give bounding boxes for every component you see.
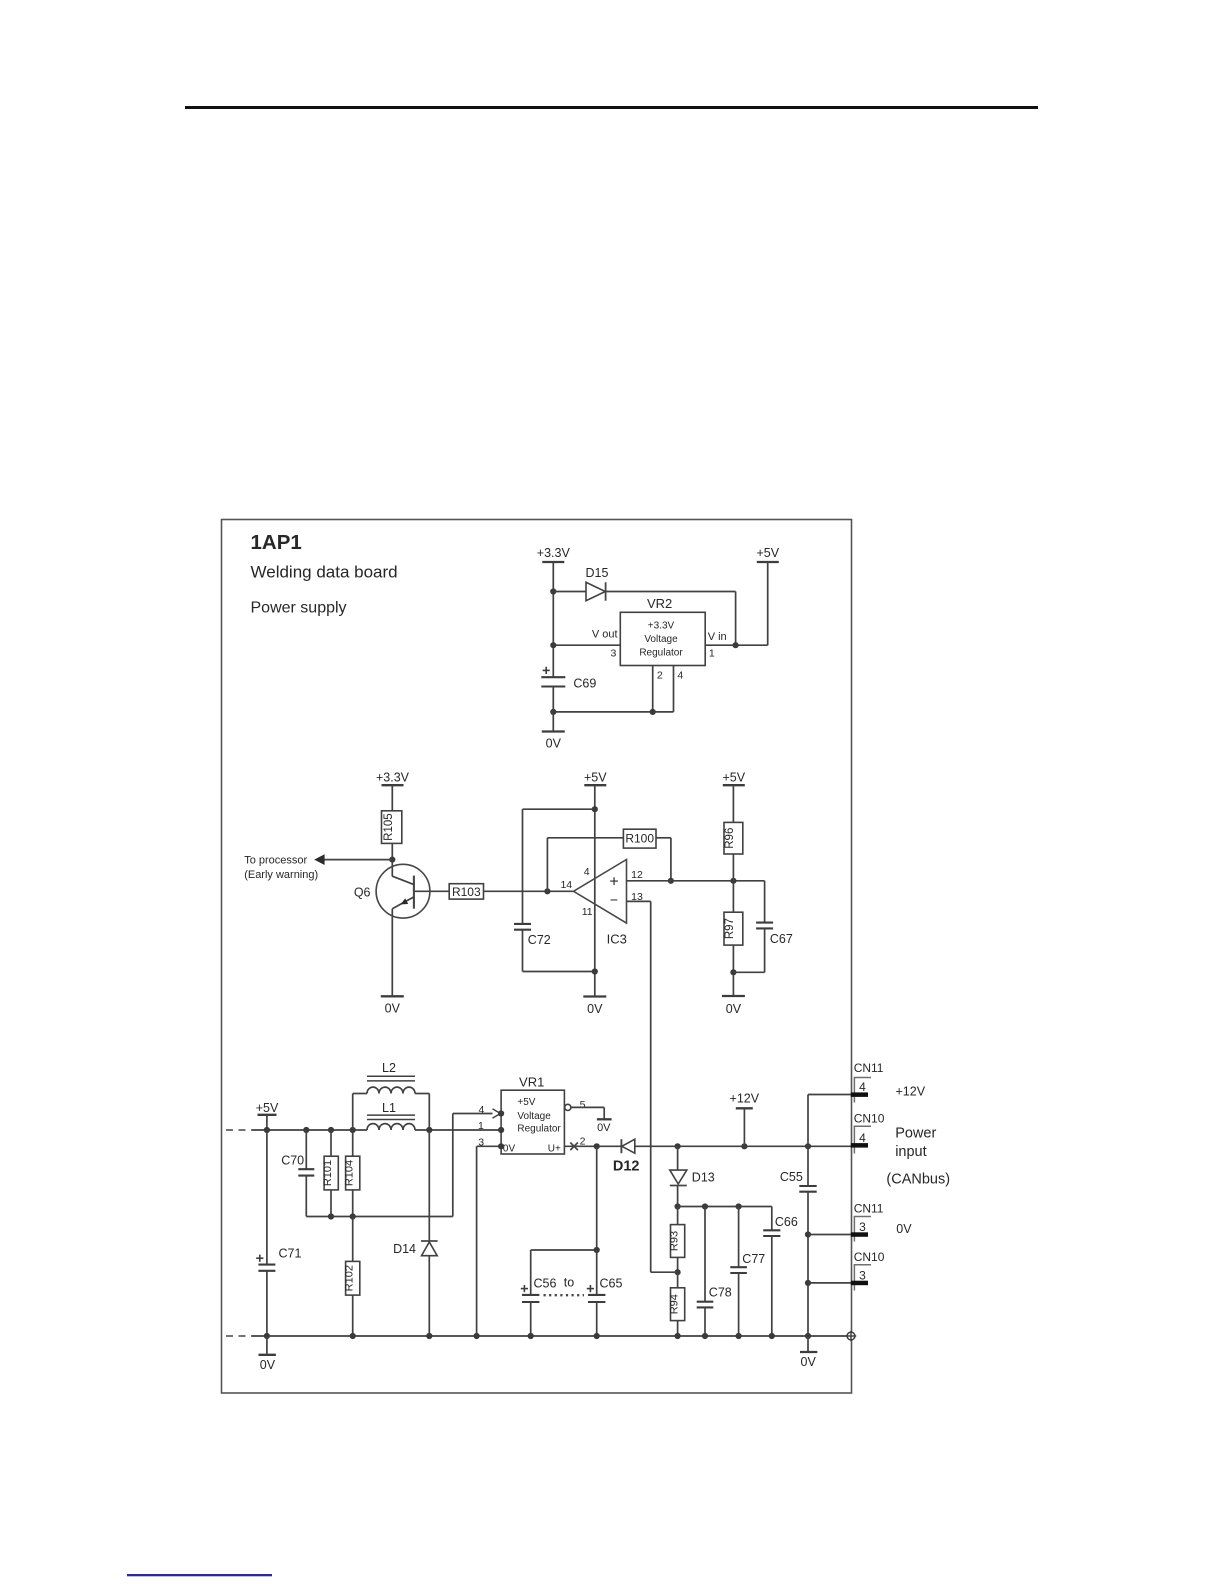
wire CN11 pin3 link [808,1234,851,1236]
arrow to processor [314,854,324,865]
svg-text:L2: L2 [382,1061,396,1075]
svg-text:D12: D12 [613,1159,640,1175]
svg-text:C66: C66 [775,1215,798,1229]
svg-text:3: 3 [610,648,616,660]
svg-text:Voltage: Voltage [644,634,678,645]
label to [564,1276,574,1290]
svg-text:1AP1: 1AP1 [251,531,302,554]
node junction 0V rail [594,1333,600,1339]
schematic frame [222,520,852,1394]
node junction CN11-3 tap [805,1231,811,1237]
svg-text:R102: R102 [344,1265,356,1291]
wire feedback bus [306,1216,453,1218]
capacitor C70 [281,1153,314,1175]
svg-text:4: 4 [859,1131,866,1145]
svg-text:C67: C67 [770,932,793,946]
diode D14 [393,1130,438,1336]
label Early warning [244,869,318,881]
svg-text:1: 1 [478,1120,484,1132]
capacitor C71 [256,1246,301,1271]
resistor R104 [344,1156,360,1190]
wire R105 to collector [391,843,393,876]
svg-text:Regulator: Regulator [639,648,683,659]
capacitor C65 [587,1250,623,1336]
svg-text:+5V: +5V [517,1097,535,1108]
ground 0V (under Q6) [381,996,404,1015]
node junction 0V rail [264,1333,270,1339]
svg-text:IC3: IC3 [607,931,627,946]
svg-text:input: input [895,1144,926,1160]
arrow into pin 4 [493,1109,501,1118]
capacitor C78 [697,1207,732,1337]
svg-text:R93: R93 [668,1231,680,1251]
svg-text:0V: 0V [597,1122,611,1134]
svg-text:+5V: +5V [757,546,780,560]
power rail +3.3V (top) [537,546,571,562]
node junction D13 tap [675,1143,681,1149]
wire VR1 pin2 output [564,1145,621,1147]
svg-text:R101: R101 [322,1160,334,1186]
diode D13 [670,1146,715,1206]
svg-text:+5V: +5V [584,771,607,785]
capacitor C69 [541,667,596,691]
resistor R102 [344,1217,360,1337]
node junction gnd left [550,709,556,715]
node junction 0V rail [769,1333,775,1339]
wire C69 bottom [552,687,554,732]
svg-text:VR1: VR1 [519,1074,544,1089]
wire feedback up [546,838,548,892]
pin 3 label VR1 [478,1137,484,1149]
label 0V (right) [896,1222,912,1236]
svg-text:0V: 0V [726,1002,742,1016]
ground 0V (top section) [542,732,565,751]
svg-text:0V: 0V [260,1358,276,1372]
wire +5V through IC3 [594,785,596,996]
subtitle Welding data board [251,563,398,582]
svg-text:R103: R103 [452,885,481,899]
label +12V (right) [896,1084,926,1098]
svg-text:Welding data board: Welding data board [251,563,398,582]
power rail +5V (bottom) [256,1101,279,1115]
pin 5 label VR1 [580,1099,586,1111]
svg-text:+12V: +12V [896,1084,926,1098]
svg-text:R97: R97 [724,918,736,939]
node junction Vin [733,642,739,648]
title 1AP1 [251,531,302,554]
svg-text:C77: C77 [742,1252,765,1266]
svg-text:+5V: +5V [723,771,746,785]
op-amp IC3 [574,860,627,947]
svg-text:0V: 0V [896,1222,912,1236]
wire Q6 emitter down [391,909,393,997]
svg-text:Q6: Q6 [354,886,371,900]
capacitor C67 [733,881,792,973]
svg-text:0V: 0V [503,1144,516,1155]
node junction pin2 [594,1143,600,1149]
svg-text:0V: 0V [801,1355,817,1369]
cross mark pin2 [570,1143,578,1151]
node junction C55 tap [805,1143,811,1149]
ground 0V (right mid) [722,996,745,1016]
connector CN11 pin 4 [851,1061,884,1102]
svg-text:C56: C56 [534,1277,557,1291]
svg-text:+3.3V: +3.3V [537,546,571,560]
svg-text:to: to [564,1276,574,1290]
wire R100 to output [656,838,671,881]
node VR1 pin4 [498,1110,504,1116]
svg-text:−: − [610,892,618,908]
capacitor C55 [780,1146,817,1336]
node junction Vout rail [550,642,556,648]
pin 4 stub VR2 [674,666,684,712]
label V out [592,628,618,640]
connector CN11 pin 3 [851,1202,884,1242]
node junction fb R104 [350,1213,356,1219]
resistor R100 [623,829,656,848]
wire +5V down to Vin [767,562,769,645]
svg-text:R96: R96 [724,828,736,849]
label Power [895,1126,936,1142]
node junction CN10-3 tap [805,1280,811,1286]
svg-text:To processor: To processor [244,854,307,866]
svg-text:C55: C55 [780,1170,803,1184]
wire R101 bottom [330,1190,332,1217]
node junction R97 C67 [730,969,736,975]
svg-text:14: 14 [560,879,572,891]
wire feedback to R100 [547,837,623,839]
svg-text:2: 2 [657,669,663,681]
node junction +5V tap [264,1127,270,1133]
node junction 0V rail [805,1333,811,1339]
wire bypass top [523,808,595,810]
svg-text:C70: C70 [281,1153,304,1167]
svg-text:3: 3 [859,1220,866,1234]
wire VR1 pin3 [477,1145,502,1147]
wire bypass bottom [523,971,595,973]
wire to VR1 pin4 [453,1113,493,1115]
pin 2 stub VR2 [653,666,663,712]
power rail +12V [730,1091,760,1108]
wire IC3 output [627,880,765,882]
wire R104 bottom [352,1190,354,1217]
ground 0V (bottom right) [800,1336,817,1369]
svg-text:4: 4 [677,669,683,681]
node junction bank [594,1247,600,1253]
svg-text:C78: C78 [709,1286,732,1300]
wire C70 top [305,1130,307,1169]
svg-text:Voltage: Voltage [517,1111,551,1122]
wire to processor [324,859,392,861]
wire pin5 [571,1107,604,1119]
wire R104 top [352,1130,354,1156]
wire +12V stub [743,1108,745,1146]
svg-text:Power: Power [895,1126,936,1142]
svg-text:CN10: CN10 [854,1250,885,1264]
label CANbus [886,1171,950,1187]
svg-text:CN10: CN10 [854,1111,885,1125]
wire feedback riser [452,1114,454,1217]
node junction pin2 gnd [650,709,656,715]
svg-text:11: 11 [582,906,593,918]
svg-text:4: 4 [859,1080,866,1094]
node junction R101 tap [328,1127,334,1133]
bottom link underline [127,1574,272,1576]
svg-text:L1: L1 [382,1101,396,1115]
node junction 0V rail [528,1333,534,1339]
svg-text:D15: D15 [586,566,609,580]
wire IC3 pin13 [627,901,651,1272]
node junction R100 output [668,878,674,884]
pin 14 label IC3 [560,879,572,891]
wire rail stub [266,1115,268,1130]
svg-text:(Early warning): (Early warning) [244,869,318,881]
dotted series marks [544,1294,585,1296]
svg-text:3: 3 [859,1269,866,1283]
node junction +12V tap [741,1143,747,1149]
pin 5 circle [565,1104,571,1110]
node junction bypass top [592,806,598,812]
resistor R94 [668,1272,684,1336]
pin 2 label VR1 [580,1135,586,1147]
node junction feedback tap [544,888,550,894]
svg-text:C71: C71 [279,1246,302,1260]
top rule [185,106,1038,109]
node junction 0V rail [736,1333,742,1339]
wire CN10 pin3 link [808,1282,851,1284]
wire CN11 pin4 link [808,1095,851,1147]
wire rail to R105 [391,785,393,811]
resistor R96 [724,822,743,854]
power rail +5V (mid) [584,771,607,786]
connector CN10 pin 3 [851,1250,885,1290]
connector CN10 pin 4 [851,1111,885,1153]
inductor L2 [353,1061,430,1130]
diode D12 [613,1139,640,1174]
pin 1 label [709,648,715,660]
wire VR2 ground return [553,711,673,713]
capacitor bank top wire [531,1146,597,1250]
node VR1 pin1 [498,1127,504,1133]
svg-text:(CANbus): (CANbus) [886,1171,950,1187]
svg-text:4: 4 [478,1104,484,1116]
rail terminal circle [846,1331,856,1341]
svg-text:C72: C72 [528,933,551,947]
svg-text:R104: R104 [344,1160,356,1186]
pin 1 label VR1 [478,1120,484,1132]
node junction R93 R94 [675,1269,681,1275]
wire VR2 pin1 Vin [705,644,768,646]
wire C72 bottom [522,930,524,972]
node junction D15 tap [550,588,556,594]
svg-text:CN11: CN11 [854,1061,884,1075]
node junction output R96 [730,878,736,884]
power rail +3.3V (mid) [376,771,410,786]
node junction 0V rail [675,1333,681,1339]
node junction L1 right [426,1127,432,1133]
wire C71 bottom [266,1271,268,1336]
main +5V wire [252,1129,501,1131]
pin 4 label VR1 [478,1104,484,1116]
wire VR2 pin3 Vout [553,644,620,646]
ground 0V (bottom left) [259,1336,276,1372]
pin 13 label IC3 [631,891,643,903]
node junction fb R101 [328,1213,334,1219]
svg-text:4: 4 [584,866,590,878]
main +5V wire (dashed end) [226,1129,252,1131]
node junction 0V rail [474,1333,480,1339]
wire D15 cathode to Vin rail [606,592,736,646]
power rail +5V (top) [757,546,780,562]
node junction C77 tap [736,1203,742,1209]
subtitle Power supply [251,600,347,617]
svg-text:+3.3V: +3.3V [376,771,410,785]
svg-text:R100: R100 [625,832,654,846]
svg-text:C69: C69 [573,677,596,691]
svg-text:Regulator: Regulator [517,1123,561,1134]
node junction 0V rail [702,1333,708,1339]
svg-text:Power supply: Power supply [251,600,347,617]
node junction early-warning tap [389,857,395,863]
svg-text:0V: 0V [546,737,562,751]
pin 4 label IC3 [584,866,590,878]
bottom 0V rail [252,1335,848,1337]
svg-text:VR2: VR2 [647,596,672,611]
node junction 0V rail [426,1333,432,1339]
pin 11 label IC3 [582,906,593,918]
svg-text:+: + [609,873,618,890]
diode D15 [586,566,609,601]
wire RC bus [678,1206,772,1208]
node junction C78 tap [702,1203,708,1209]
node junction D13 bottom [675,1203,681,1209]
wire +3.3V rail down [552,562,554,677]
label To processor [244,854,307,866]
wire D15 anode [553,591,586,593]
svg-text:+3.3V: +3.3V [648,621,675,632]
svg-text:12: 12 [631,869,643,881]
svg-text:V in: V in [708,631,727,643]
resistor R103 [449,884,483,899]
resistor R101 [322,1156,338,1190]
wire R101 top [330,1130,332,1156]
label V in [708,631,727,643]
wire pin3 ground drop [476,1146,478,1336]
bottom 0V rail (dashed end) [226,1335,252,1337]
node VR1 pin3 [498,1143,504,1149]
svg-text:1: 1 [709,648,715,660]
svg-text:U+: U+ [548,1144,561,1155]
wire pin13 link [651,1271,678,1273]
pin 3 label [610,648,616,660]
svg-text:0V: 0V [385,1002,401,1016]
resistor R105 [382,811,402,844]
svg-text:R105: R105 [383,813,395,841]
capacitor C77 [730,1207,765,1337]
transistor Q6 [354,864,430,918]
ground 0V (under IC3) [583,997,606,1016]
node junction bypass bottom [592,968,598,974]
svg-text:0V: 0V [587,1002,603,1016]
capacitor C66 [763,1207,798,1337]
node junction 0V rail [350,1333,356,1339]
node junction R104 tap [350,1127,356,1133]
capacitor C72 [514,924,551,947]
svg-text:5: 5 [580,1099,586,1111]
wire left branch down [266,1130,268,1265]
svg-text:C65: C65 [600,1277,623,1291]
svg-text:D13: D13 [692,1171,715,1185]
main power input wire [635,1145,851,1147]
svg-text:V out: V out [592,628,618,640]
capacitor C56 [521,1250,557,1336]
svg-text:CN11: CN11 [854,1202,884,1216]
wire bypass left down [522,809,524,924]
VR2 internal label [639,621,683,659]
wire Q6 base [414,890,449,892]
svg-text:D14: D14 [393,1242,416,1256]
resistor R97 [724,912,743,945]
label input [895,1144,926,1160]
wire R96 to R97 [732,854,734,912]
wire C70 bottom [305,1176,307,1217]
resistor R93 [668,1207,684,1273]
VR1 internal label [503,1097,562,1155]
inductor L1 [367,1101,415,1130]
wire R97 down [732,945,734,996]
node junction C70 tap [303,1127,309,1133]
voltage regulator VR1 [501,1074,564,1154]
svg-text:+5V: +5V [256,1101,279,1115]
pin 12 label IC3 [631,869,643,881]
svg-text:+12V: +12V [730,1091,760,1105]
voltage regulator VR2 [620,596,705,666]
power rail +5V (right) [723,771,746,786]
svg-text:R94: R94 [668,1294,680,1314]
ground 0V (pin5) [597,1119,612,1134]
wire R103 to IC3 [484,890,574,892]
wire rail to R96 [732,785,734,822]
